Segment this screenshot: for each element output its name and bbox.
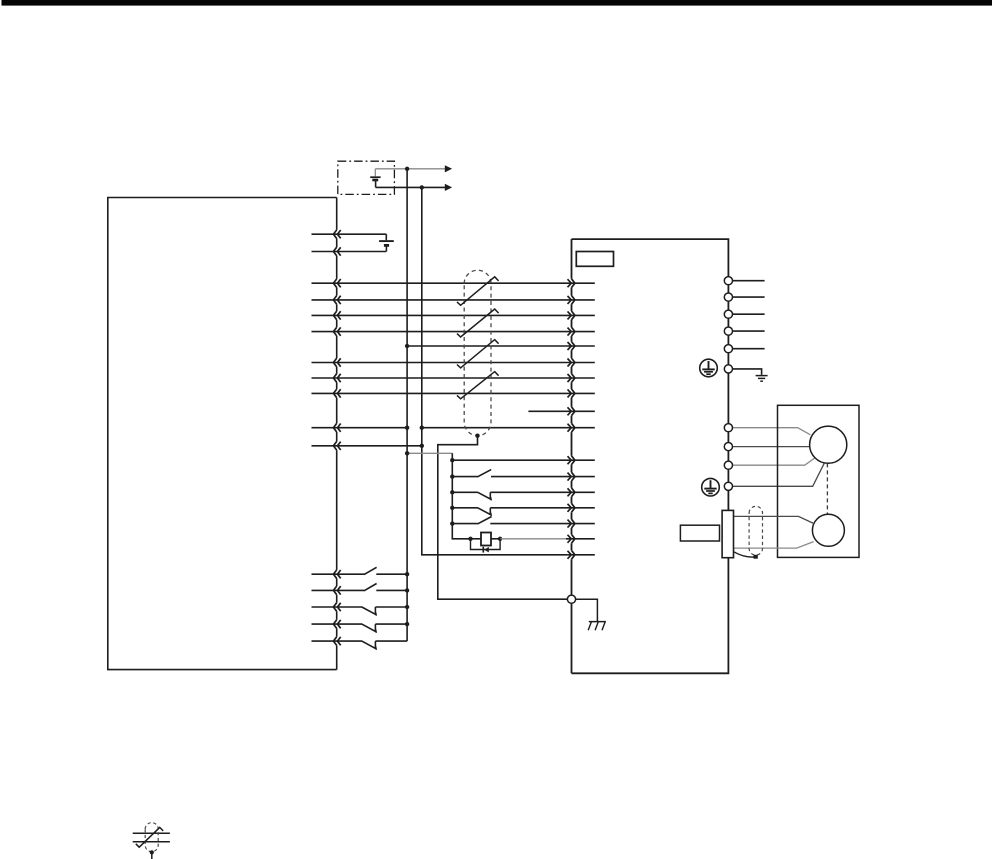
- controller pin arrow y=378.0: [333, 374, 340, 383]
- battery B2 (backup): [379, 234, 394, 251]
- twisted-pair symbol 4: [457, 372, 499, 399]
- legend twisted-pair symbol: [136, 827, 163, 847]
- frame-ground terminal (circle): [567, 595, 575, 603]
- rail V2 (x=422) with bend to row 554.8: [422, 187, 568, 554]
- controller pin arrow y=393.4: [333, 389, 340, 398]
- twisted-pair symbol 2: [457, 309, 499, 337]
- servo CN1 pin arrow y=492.3: [568, 488, 575, 497]
- junction rail V1 / row 607: [405, 605, 409, 609]
- twisted-pair symbol 3: [457, 340, 499, 368]
- twisted-pair symbol 1: [457, 277, 499, 306]
- legend shield dot: [150, 850, 154, 854]
- junction rail V1 / row 574.2: [405, 572, 409, 576]
- junction rail V1 / supply +: [405, 167, 409, 171]
- wire signal row y=283.2: [312, 282, 595, 284]
- wire row y=538.8 to servo (gray): [500, 538, 566, 540]
- motor circle M: [810, 426, 847, 463]
- junction rail V2 / row 427.7: [420, 426, 424, 430]
- junction bus / row 476.6: [450, 474, 454, 478]
- junction resistor right: [498, 537, 502, 541]
- power terminal wire 1: [733, 280, 765, 282]
- wire row y=554.8 stub: [567, 554, 594, 556]
- servo amplifier box: [572, 239, 729, 673]
- switch SW2 (NC) row y=492.3: [452, 492, 595, 500]
- protective earth symbol PE2: [702, 478, 720, 496]
- wire supply - output: [376, 186, 445, 188]
- wire rail V1 to switch bus (gray): [407, 452, 452, 454]
- diode bypass loop: [471, 539, 501, 550]
- junction bus / row 460.2: [450, 458, 454, 462]
- power terminal wire 4: [733, 330, 765, 332]
- servo CN1 pin arrow y=378.0: [568, 374, 575, 383]
- wire signal row y=299.9: [312, 299, 595, 301]
- earth wire with ground symbol: [733, 369, 768, 381]
- junction rail V1 / row 346: [405, 344, 409, 348]
- switch SW8 (NC) row y=624.1: [312, 624, 408, 633]
- junction rail V1 / row 590.4: [405, 588, 409, 592]
- encoder wire 2 (gray): [734, 542, 814, 549]
- junction bus / row 507.8: [450, 506, 454, 510]
- wire row y=427.7 right part: [422, 427, 595, 429]
- servo CN1 pin arrow y=523.6: [568, 519, 575, 528]
- controller pin arrow y=624.1: [333, 620, 340, 629]
- encoder shield drain dot: [754, 555, 758, 559]
- power terminal circle 5: [724, 345, 732, 353]
- junction rail V2 / supply -: [420, 185, 424, 189]
- servo CN1 pin arrow y=393.4: [568, 389, 575, 398]
- power terminal circle 3: [724, 310, 732, 318]
- controller pin arrow y=607.0: [333, 603, 340, 612]
- motor terminal circle 2: [724, 443, 732, 451]
- wire supply + output (gray): [375, 168, 445, 170]
- power terminal circle 1: [724, 277, 732, 285]
- switch SW9 (NC) row y=641.1: [312, 641, 408, 650]
- junction rail V1 / bus link: [405, 451, 409, 455]
- servo CN1 pin arrow y=299.9: [568, 296, 575, 305]
- wire row y=460.2: [452, 459, 595, 461]
- ground terminal circle: [724, 365, 732, 373]
- switch SW4 (NO) row y=523.6: [452, 517, 595, 524]
- wire +24V row y=346 from rail V1: [407, 345, 595, 347]
- wire row y=427.7 left part: [312, 427, 408, 429]
- controller pin arrow y=590.4: [333, 586, 340, 595]
- arrowhead - output: [445, 184, 452, 191]
- motor wire E: [733, 463, 825, 486]
- wire signal row y=315.4: [312, 314, 595, 316]
- wire bus to resistor: [471, 538, 482, 540]
- switch SW7 (NC) row y=607: [312, 607, 408, 616]
- legend wires: [133, 833, 170, 842]
- wire signal row y=393.4: [312, 392, 595, 394]
- battery B1 (supply): [370, 169, 380, 188]
- power terminal wire 2: [733, 296, 765, 298]
- encoder shield ellipse (dashed): [749, 506, 762, 555]
- junction rail V1 / row 427.7: [405, 426, 409, 430]
- page top rule: [2, 0, 992, 6]
- legend drain tail: [151, 852, 153, 859]
- encoder shield drain wire: [734, 552, 754, 557]
- servo CN1 pin arrow y=411.3: [568, 407, 575, 416]
- power terminal wire 5: [733, 348, 765, 350]
- connector CN1 label box: [576, 252, 613, 267]
- wire signal row y=378.0: [312, 377, 595, 379]
- servomotor box: [778, 405, 860, 557]
- host controller box: [108, 198, 337, 670]
- motor wire V: [733, 446, 810, 448]
- junction resistor left: [468, 537, 472, 541]
- 24V power supply enclosure (dash-dot): [338, 161, 395, 194]
- switch SW5 (NO) row y=574.2: [312, 567, 408, 574]
- power terminal circle 4: [724, 327, 732, 335]
- servo CN1 pin arrow y=283.2: [568, 279, 575, 288]
- servo CN1 pin arrow y=507.8: [568, 503, 575, 512]
- servo CN1 pin arrow y=476.6: [568, 472, 575, 481]
- chassis ground (fork): [576, 599, 606, 630]
- controller pin arrow y=283.2: [333, 279, 340, 288]
- diode D1: [483, 547, 489, 553]
- switch bus vertical: [452, 453, 470, 539]
- controller pin arrow y=234.2: [333, 230, 340, 239]
- servo CN1 pin arrow y=427.7: [568, 423, 575, 432]
- motor terminal circle 3: [724, 461, 732, 469]
- servo CN1 pin arrow y=362.5: [568, 358, 575, 367]
- controller pin arrow y=641.1: [333, 637, 340, 646]
- resistor R1 (brake): [481, 533, 491, 546]
- encoder wire 1: [734, 516, 815, 523]
- motor terminal circle 1: [724, 424, 732, 432]
- encoder connector (on servo edge): [722, 510, 733, 557]
- encoder connector label box: [680, 525, 719, 541]
- motor wire U (gray): [733, 428, 811, 435]
- motor wire W (gray): [733, 458, 815, 465]
- power terminal wire 3: [733, 313, 765, 315]
- controller pin arrow y=362.5: [333, 358, 340, 367]
- junction rail V1 / row 624.1: [405, 622, 409, 626]
- wire shield drain to FG: [438, 436, 568, 600]
- junction rail V2 / row 445.8: [420, 444, 424, 448]
- controller pin arrow y=315.4: [333, 311, 340, 320]
- wire battery backup pair: [312, 234, 387, 251]
- wire stub row y=411: [528, 410, 594, 412]
- servo CN1 pin arrow y=554.8: [568, 550, 575, 559]
- switch SW6 (NO) row y=590.4: [312, 584, 408, 591]
- junction bus / row 492.3: [450, 490, 454, 494]
- wire resistor right: [491, 538, 500, 540]
- shield drain junction dot: [475, 434, 479, 438]
- legend shield ellipse (dashed): [145, 823, 158, 852]
- switch SW1 (NO) row y=476.6: [452, 470, 595, 477]
- servo CN1 pin arrow y=315.4: [568, 311, 575, 320]
- controller pin arrow y=331.6: [333, 327, 340, 336]
- motor terminal circle 4: [724, 482, 732, 490]
- controller pin arrow y=251.5: [333, 247, 340, 256]
- servo CN1 pin arrow y=346.0: [568, 342, 575, 351]
- servo CN1 pin arrow y=331.6: [568, 327, 575, 336]
- controller pin arrow y=299.9: [333, 296, 340, 305]
- motor-encoder dashed link: [826, 463, 828, 514]
- cable shield ellipse (dashed): [464, 270, 491, 435]
- controller pin arrow y=445.8: [333, 442, 340, 451]
- wire signal row y=331.6: [312, 331, 595, 333]
- wire signal row y=362.5: [312, 362, 595, 364]
- servo CN1 pin arrow y=460.2: [568, 456, 575, 465]
- arrowhead + output: [445, 165, 452, 172]
- wire row y=445.8 to rail V2: [312, 445, 422, 447]
- switch SW3 (NC) row y=507.8: [452, 508, 595, 516]
- encoder circle PG: [812, 514, 844, 546]
- power terminal circle 2: [724, 293, 732, 301]
- controller pin arrow y=427.7: [333, 423, 340, 432]
- servo CN1 pin arrow y=538.8: [568, 534, 575, 543]
- wire row y=538.8 stub: [566, 538, 595, 540]
- controller pin arrow y=574.2: [333, 570, 340, 579]
- rail V1 (x=407): [406, 169, 408, 641]
- protective earth symbol PE1: [700, 359, 718, 377]
- junction bus / row 523.6: [450, 521, 454, 525]
